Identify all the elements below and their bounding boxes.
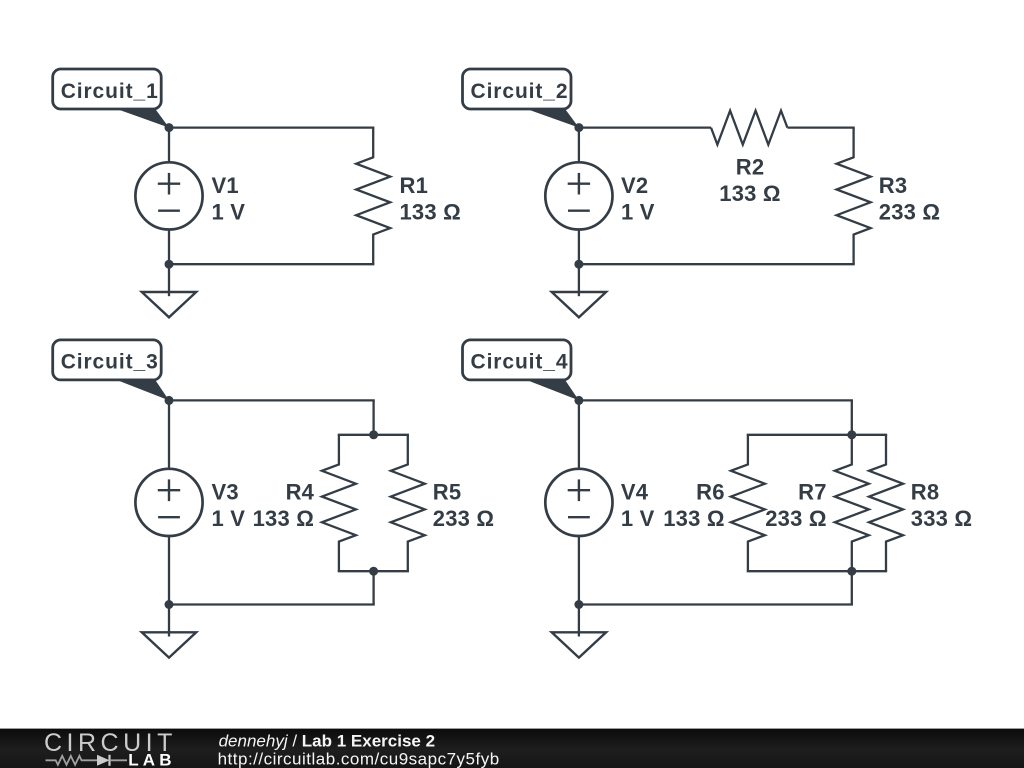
svg-text:1 V: 1 V (212, 506, 246, 531)
svg-text:133 Ω: 133 Ω (400, 199, 461, 224)
svg-text:dennehyj / Lab 1 Exercise 2: dennehyj / Lab 1 Exercise 2 (219, 731, 435, 750)
svg-text:333 Ω: 333 Ω (911, 506, 972, 531)
svg-text:133 Ω: 133 Ω (663, 506, 724, 531)
svg-text:Circuit_4: Circuit_4 (471, 351, 569, 374)
svg-text:R6: R6 (696, 479, 725, 504)
svg-text:233 Ω: 233 Ω (433, 506, 494, 531)
svg-text:1 V: 1 V (621, 199, 655, 224)
svg-text:R2: R2 (736, 155, 765, 180)
svg-text:Circuit_3: Circuit_3 (61, 351, 159, 374)
svg-text:http://circuitlab.com/cu9sapc7: http://circuitlab.com/cu9sapc7y5fyb (218, 749, 500, 768)
svg-text:133 Ω: 133 Ω (719, 181, 780, 206)
svg-text:R5: R5 (433, 479, 462, 504)
svg-text:V3: V3 (212, 479, 239, 504)
svg-text:R8: R8 (911, 479, 940, 504)
svg-text:V4: V4 (621, 479, 649, 504)
svg-text:133 Ω: 133 Ω (253, 506, 314, 531)
svg-text:V1: V1 (212, 173, 239, 198)
svg-text:Circuit_1: Circuit_1 (61, 80, 159, 103)
svg-text:R4: R4 (286, 479, 315, 504)
svg-text:233 Ω: 233 Ω (765, 506, 826, 531)
svg-text:1 V: 1 V (212, 199, 246, 224)
svg-text:233 Ω: 233 Ω (879, 199, 940, 224)
svg-text:R3: R3 (879, 173, 908, 198)
svg-text:R1: R1 (400, 173, 429, 198)
svg-text:V2: V2 (621, 173, 648, 198)
svg-text:R7: R7 (798, 479, 827, 504)
svg-text:LAB: LAB (128, 750, 176, 768)
svg-text:Circuit_2: Circuit_2 (471, 80, 569, 103)
svg-text:1 V: 1 V (621, 506, 655, 531)
